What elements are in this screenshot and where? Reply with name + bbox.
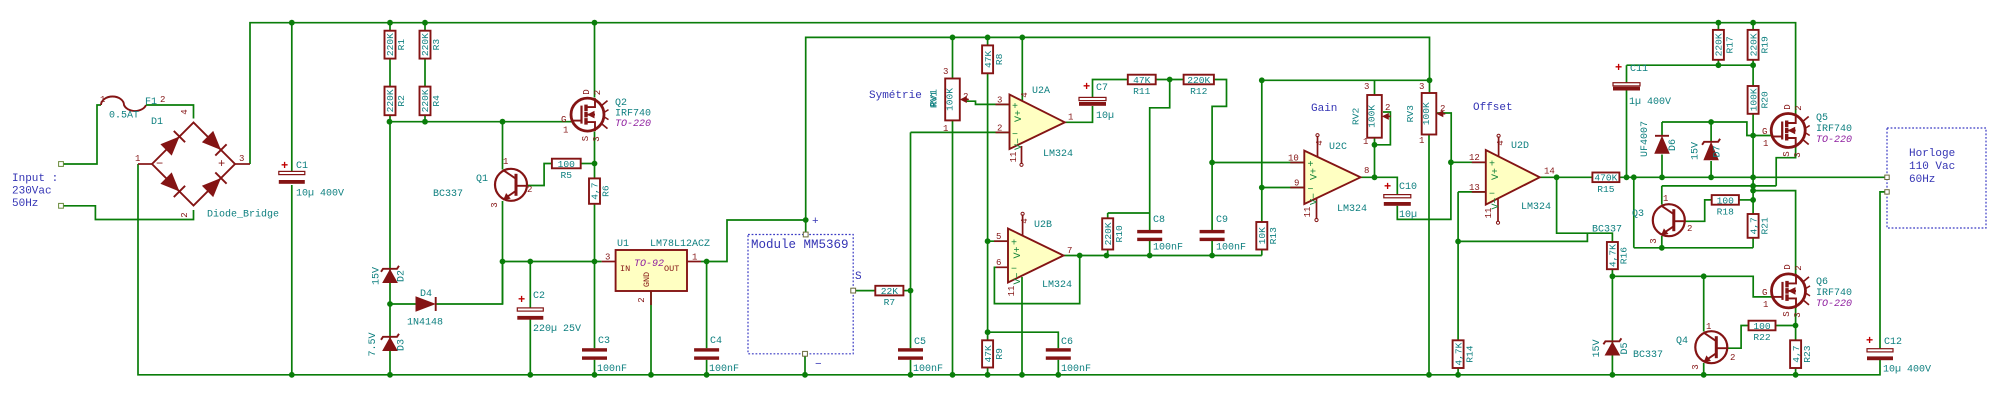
svg-text:220K: 220K (1103, 222, 1114, 245)
svg-text:1: 1 (943, 124, 948, 134)
svg-text:22K: 22K (881, 286, 899, 297)
svg-text:V+: V+ (1014, 110, 1025, 122)
svg-text:V−: V− (1310, 193, 1321, 205)
svg-text:3: 3 (490, 202, 500, 207)
svg-text:Q6: Q6 (1816, 277, 1828, 288)
svg-text:C2: C2 (533, 291, 545, 302)
svg-text:15V: 15V (372, 267, 383, 285)
svg-text:R20: R20 (1759, 91, 1770, 109)
svg-text:7: 7 (1067, 246, 1072, 256)
svg-text:S: S (581, 136, 591, 141)
svg-text:10µ: 10µ (1399, 210, 1417, 221)
svg-text:220K: 220K (385, 89, 396, 112)
svg-text:U2B: U2B (1034, 220, 1052, 231)
svg-text:C10: C10 (1399, 182, 1417, 193)
svg-text:R14: R14 (1464, 345, 1475, 363)
svg-text:Q3: Q3 (1632, 209, 1644, 220)
svg-text:8: 8 (1364, 166, 1369, 176)
svg-text:R18: R18 (1717, 206, 1735, 217)
svg-text:R9: R9 (994, 348, 1005, 360)
svg-text:12: 12 (1469, 153, 1480, 163)
svg-text:3: 3 (1364, 82, 1369, 92)
svg-text:D4: D4 (420, 289, 432, 300)
svg-text:R1: R1 (396, 39, 407, 51)
svg-text:2: 2 (1794, 105, 1804, 110)
svg-text:R10: R10 (1114, 225, 1125, 243)
svg-text:47K: 47K (983, 50, 994, 68)
svg-text:15V: 15V (1691, 142, 1702, 160)
svg-text:2: 2 (160, 95, 165, 105)
svg-text:1: 1 (1663, 194, 1668, 204)
svg-text:G: G (561, 115, 566, 125)
svg-text:1: 1 (563, 126, 568, 136)
svg-text:100: 100 (1753, 321, 1771, 332)
svg-text:10µ 400V: 10µ 400V (1883, 365, 1931, 376)
svg-text:TO-220: TO-220 (1816, 135, 1852, 146)
svg-text:47K: 47K (1133, 75, 1151, 86)
svg-text:TO-92: TO-92 (634, 259, 664, 270)
svg-text:C5: C5 (914, 337, 926, 348)
svg-text:+: + (812, 216, 819, 228)
svg-text:Diode_Bridge: Diode_Bridge (207, 209, 279, 221)
svg-text:IN: IN (620, 264, 630, 274)
svg-text:0.5AT: 0.5AT (109, 111, 139, 122)
svg-text:F1: F1 (145, 97, 157, 108)
svg-text:C8: C8 (1153, 215, 1165, 226)
svg-text:2: 2 (593, 90, 603, 95)
svg-text:+: + (218, 157, 225, 171)
svg-text:4: 4 (1496, 140, 1506, 145)
svg-text:D5: D5 (1620, 342, 1631, 354)
svg-text:110 Vac: 110 Vac (1909, 161, 1955, 173)
svg-text:10: 10 (1288, 154, 1299, 164)
svg-text:220K: 220K (420, 33, 431, 56)
svg-text:BC337: BC337 (1592, 225, 1622, 236)
svg-text:10µ 400V: 10µ 400V (296, 189, 344, 200)
svg-text:4,7: 4,7 (1791, 346, 1802, 363)
svg-text:IRF740: IRF740 (1816, 288, 1852, 299)
svg-text:S: S (1782, 311, 1792, 316)
svg-text:13: 13 (1469, 183, 1480, 193)
svg-text:4: 4 (1020, 218, 1030, 223)
svg-text:4: 4 (1020, 92, 1030, 97)
svg-text:Q5: Q5 (1816, 113, 1828, 124)
svg-text:+: + (281, 159, 288, 173)
svg-text:LM324: LM324 (1521, 202, 1551, 213)
svg-text:R17: R17 (1725, 36, 1736, 53)
svg-text:C6: C6 (1061, 337, 1073, 348)
svg-text:C9: C9 (1216, 215, 1228, 226)
svg-text:3: 3 (943, 67, 948, 77)
svg-text:Module MM5369: Module MM5369 (751, 238, 849, 252)
svg-text:220µ 25V: 220µ 25V (533, 324, 581, 335)
svg-text:Horloge: Horloge (1909, 148, 1955, 160)
svg-text:+: + (1866, 334, 1873, 348)
svg-text:100nF: 100nF (1061, 364, 1091, 375)
svg-text:C3: C3 (598, 336, 610, 347)
svg-text:3: 3 (1793, 152, 1803, 157)
svg-text:R16: R16 (1619, 247, 1630, 265)
svg-text:Symétrie: Symétrie (869, 90, 922, 102)
svg-text:LM324: LM324 (1042, 280, 1072, 291)
svg-text:C1: C1 (296, 161, 308, 172)
svg-text:1: 1 (1419, 136, 1424, 146)
svg-text:1: 1 (1068, 113, 1073, 123)
svg-text:V−: V− (1014, 138, 1025, 150)
svg-text:+: + (1384, 180, 1391, 194)
svg-text:1: 1 (135, 154, 140, 164)
svg-text:2: 2 (997, 124, 1002, 134)
svg-text:470K: 470K (1594, 173, 1617, 184)
svg-text:V+: V+ (1013, 246, 1024, 258)
svg-text:1: 1 (1363, 137, 1368, 147)
svg-text:2: 2 (1385, 103, 1390, 113)
svg-text:230Vac: 230Vac (12, 186, 52, 198)
svg-text:3: 3 (1691, 364, 1701, 369)
svg-text:Gain: Gain (1311, 103, 1337, 115)
svg-text:1: 1 (692, 253, 697, 263)
svg-text:60Hz: 60Hz (1909, 174, 1935, 186)
svg-text:2: 2 (180, 212, 190, 217)
svg-text:G: G (1762, 288, 1767, 298)
svg-text:V+: V+ (1491, 168, 1502, 180)
svg-text:U2A: U2A (1032, 86, 1050, 97)
svg-text:220K: 220K (1714, 33, 1725, 56)
svg-text:U2C: U2C (1329, 142, 1347, 153)
svg-text:D3: D3 (397, 339, 408, 351)
svg-text:R15: R15 (1597, 184, 1615, 195)
svg-text:100nF: 100nF (1153, 243, 1183, 254)
svg-text:9: 9 (1294, 179, 1299, 189)
svg-text:15V: 15V (1592, 339, 1603, 357)
svg-text:1: 1 (1763, 300, 1768, 310)
svg-text:1µ 400V: 1µ 400V (1629, 97, 1671, 108)
svg-text:4: 4 (180, 109, 190, 114)
svg-text:10µ: 10µ (1096, 111, 1114, 122)
svg-text:Offset: Offset (1473, 102, 1513, 114)
svg-text:R12: R12 (1190, 86, 1208, 97)
svg-text:1: 1 (100, 95, 105, 105)
svg-text:14: 14 (1544, 167, 1555, 177)
svg-text:100: 100 (1717, 195, 1735, 206)
svg-text:R8: R8 (994, 53, 1005, 65)
svg-text:R3: R3 (431, 39, 442, 51)
svg-text:100: 100 (558, 159, 576, 170)
svg-text:V+: V+ (1310, 168, 1321, 180)
svg-text:3: 3 (1649, 238, 1659, 243)
svg-text:IRF740: IRF740 (615, 109, 651, 120)
svg-text:4: 4 (1315, 140, 1325, 145)
svg-text:4,7: 4,7 (590, 182, 601, 199)
svg-text:RV3: RV3 (1405, 105, 1416, 123)
svg-text:BC337: BC337 (433, 189, 463, 200)
svg-text:+: + (518, 293, 525, 307)
svg-text:R4: R4 (431, 95, 442, 107)
svg-text:D1: D1 (151, 117, 163, 128)
svg-text:50Hz: 50Hz (12, 198, 38, 210)
svg-text:3: 3 (592, 136, 602, 141)
svg-text:LM324: LM324 (1337, 204, 1367, 215)
svg-text:1: 1 (1706, 322, 1711, 332)
svg-text:11: 11 (1303, 207, 1313, 218)
svg-text:C12: C12 (1884, 337, 1902, 348)
svg-text:220K: 220K (420, 89, 431, 112)
svg-text:V−: V− (1013, 272, 1024, 284)
svg-text:S: S (1782, 151, 1792, 156)
svg-text:3: 3 (1793, 312, 1803, 317)
svg-text:2: 2 (527, 185, 532, 195)
svg-text:C7: C7 (1096, 83, 1108, 94)
svg-text:D7: D7 (1713, 145, 1724, 157)
svg-text:TO-220: TO-220 (1816, 299, 1852, 310)
svg-text:220K: 220K (1187, 75, 1210, 86)
svg-text:4,7K: 4,7K (1608, 244, 1619, 267)
svg-text:R22: R22 (1753, 332, 1771, 343)
svg-text:IRF740: IRF740 (1816, 124, 1852, 135)
svg-text:7.5V: 7.5V (368, 332, 379, 356)
svg-text:6: 6 (996, 258, 1001, 268)
svg-text:Input :: Input : (12, 173, 58, 185)
svg-text:47K: 47K (983, 345, 994, 363)
svg-text:100K: 100K (1367, 105, 1378, 128)
svg-text:U1: U1 (617, 239, 629, 250)
svg-text:+: + (1615, 61, 1622, 75)
svg-text:LM78L12ACZ: LM78L12ACZ (650, 239, 710, 250)
svg-text:100K: 100K (1421, 102, 1432, 125)
svg-text:2: 2 (1794, 265, 1804, 270)
svg-text:D2: D2 (397, 270, 408, 282)
svg-text:5: 5 (996, 232, 1001, 242)
svg-text:R6: R6 (601, 185, 612, 197)
svg-text:11: 11 (1007, 286, 1017, 297)
svg-text:3: 3 (239, 154, 244, 164)
svg-text:100nF: 100nF (597, 364, 627, 375)
svg-text:4,7: 4,7 (1748, 217, 1759, 234)
svg-text:R11: R11 (1133, 86, 1151, 97)
svg-text:UF4007: UF4007 (1640, 121, 1651, 157)
svg-text:2: 2 (1730, 353, 1735, 363)
svg-text:R7: R7 (884, 297, 896, 308)
svg-text:RV2: RV2 (1351, 107, 1362, 125)
svg-text:D: D (1783, 264, 1793, 269)
svg-text:C11: C11 (1630, 64, 1648, 75)
svg-text:4,7K: 4,7K (1453, 342, 1464, 365)
svg-text:1: 1 (503, 157, 508, 167)
svg-text:1N4148: 1N4148 (407, 318, 443, 329)
svg-text:100nF: 100nF (1216, 243, 1246, 254)
svg-text:10K: 10K (1257, 227, 1268, 245)
svg-text:+: + (1083, 80, 1090, 94)
svg-text:BC337: BC337 (1633, 350, 1663, 361)
svg-text:11: 11 (1009, 152, 1019, 163)
svg-text:3: 3 (605, 253, 610, 263)
svg-text:TO-220: TO-220 (615, 119, 651, 130)
svg-text:100K: 100K (945, 88, 956, 111)
svg-text:S: S (855, 271, 862, 283)
svg-text:U2D: U2D (1511, 141, 1529, 152)
svg-text:100K: 100K (1748, 88, 1759, 111)
svg-text:OUT: OUT (664, 264, 679, 274)
svg-text:220K: 220K (385, 33, 396, 56)
svg-text:G: G (1762, 127, 1767, 137)
svg-text:D: D (582, 89, 592, 94)
svg-text:LM324: LM324 (1043, 149, 1073, 160)
svg-text:1: 1 (1763, 139, 1768, 149)
svg-text:100nF: 100nF (709, 364, 739, 375)
svg-text:GND: GND (642, 272, 652, 287)
svg-text:Q1: Q1 (476, 174, 488, 185)
svg-text:2: 2 (1440, 104, 1445, 114)
svg-text:3: 3 (1419, 82, 1424, 92)
svg-text:−: − (156, 157, 163, 171)
svg-text:−: − (815, 359, 822, 371)
svg-text:D: D (1783, 104, 1793, 109)
svg-text:11: 11 (1484, 208, 1494, 219)
svg-text:220K: 220K (1748, 33, 1759, 56)
svg-text:2: 2 (1687, 224, 1692, 234)
svg-text:R23: R23 (1802, 345, 1813, 363)
svg-text:D6: D6 (1668, 139, 1679, 151)
svg-text:2: 2 (637, 297, 647, 302)
svg-text:R19: R19 (1759, 36, 1770, 54)
svg-text:2: 2 (963, 92, 968, 102)
svg-text:3: 3 (997, 96, 1002, 106)
svg-text:100nF: 100nF (913, 364, 943, 375)
svg-text:R13: R13 (1268, 227, 1279, 245)
svg-text:R5: R5 (561, 170, 573, 181)
svg-text:R2: R2 (396, 95, 407, 107)
svg-text:C4: C4 (710, 336, 722, 347)
svg-text:R21: R21 (1759, 217, 1770, 235)
svg-text:Q4: Q4 (1676, 336, 1688, 347)
svg-text:RV1: RV1 (930, 89, 941, 107)
svg-text:Q2: Q2 (615, 98, 627, 109)
